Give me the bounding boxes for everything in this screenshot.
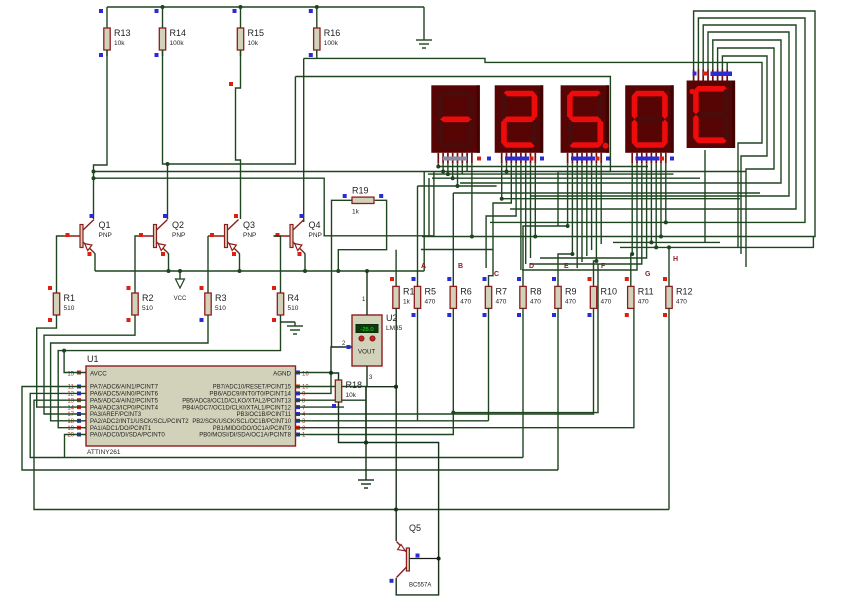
wire net wrap W1 (R16 to display5 pin8) [304, 58, 762, 248]
transistor Q4 [274, 214, 322, 256]
svg-text:BC557A: BC557A [409, 583, 431, 589]
pin 19 left [66, 426, 86, 432]
wire R15 to Q3 collector [229, 50, 241, 219]
wire R19 left to U2 pin2 column [332, 200, 353, 347]
wire R16 bottom junction [316, 50, 318, 58]
marker bar display DS5 [693, 72, 733, 77]
wire display5 pin3 bundle [510, 25, 796, 209]
wire DS1 pin b [441, 164, 445, 174]
wire long bus Q loop [92, 172, 434, 236]
resistor R15 [233, 7, 265, 56]
wire ground node to Q5 base net [366, 443, 439, 559]
wire R18 bottom to ground node [339, 402, 367, 443]
microcontroller U1 ATTINY261 [86, 354, 296, 456]
wire DS3 pin e [586, 164, 588, 256]
wire DS1 pin f [461, 164, 463, 174]
wire DS4 pin b [522, 164, 637, 270]
wire R9 top [558, 254, 572, 286]
wire DS1 pin d [451, 164, 455, 180]
svg-text:R14: R14 [170, 28, 187, 38]
resistor R6 [447, 277, 472, 317]
svg-text:Q3: Q3 [243, 220, 255, 230]
resistor R3 [200, 286, 227, 322]
wire R1 to pin14 [37, 315, 66, 407]
svg-text:1: 1 [362, 297, 366, 303]
svg-text:G: G [645, 271, 651, 278]
wire DS1 pin a [436, 164, 440, 169]
wire net wrap W2 (R14 net around displays) [295, 77, 610, 227]
resistor R11 [625, 277, 654, 317]
svg-text:Q4: Q4 [309, 220, 321, 230]
svg-text:3: 3 [302, 419, 306, 425]
svg-text:510: 510 [142, 305, 153, 312]
node B [458, 263, 463, 270]
svg-text:R11: R11 [638, 286, 654, 296]
svg-text:R19: R19 [352, 185, 369, 195]
wire R4 bottom to ground [281, 315, 296, 322]
svg-text:510: 510 [288, 305, 299, 312]
wire DS4 pin f [654, 164, 658, 249]
resistor R18 [332, 380, 362, 408]
wire AVCC tap [64, 351, 86, 373]
wire pin2 to R11 [309, 308, 634, 428]
wire R14 to Q2 collector [163, 50, 170, 219]
svg-text:VOUT: VOUT [358, 349, 375, 356]
wire DS1 pin c [446, 164, 450, 176]
svg-text:470: 470 [601, 298, 612, 305]
svg-text:VCC: VCC [174, 296, 187, 302]
wire R5 to pin3 [309, 308, 418, 421]
svg-text:1k: 1k [352, 208, 360, 215]
wire pin11 to bus B [22, 387, 558, 471]
svg-text:PNP: PNP [309, 232, 322, 239]
wire R7 down to pin3 row [488, 308, 490, 421]
svg-text:470: 470 [638, 298, 649, 305]
wire mesh left col a [423, 172, 425, 272]
svg-text:510: 510 [64, 305, 75, 312]
node D [529, 263, 534, 270]
wire Q3 emitter to rail [239, 253, 240, 272]
ground near R4 [287, 322, 303, 334]
wire R3 to pin18 [51, 315, 208, 421]
wire R19 right jog to rail [338, 200, 386, 271]
pin 12 left [66, 391, 86, 397]
wire bus segment F [421, 249, 493, 251]
svg-text:510: 510 [215, 305, 226, 312]
wire display5 pin6 bundle [718, 48, 774, 267]
resistor R8 [517, 277, 542, 317]
wire bus segment B [432, 177, 700, 179]
wire DS3 pin a [566, 164, 570, 228]
resistor R10 [588, 277, 618, 317]
node A [421, 263, 426, 270]
resistor R14 [155, 7, 187, 57]
7-segment display DS4 showing 0 [625, 85, 674, 164]
svg-text:4: 4 [302, 412, 306, 418]
wire DS2 pin g [530, 164, 532, 258]
wire DS2 pin d [486, 164, 516, 268]
wire R11 top [631, 254, 632, 286]
wire pin8 short [309, 399, 366, 401]
svg-text:R16: R16 [324, 28, 341, 38]
resistor R1 [48, 286, 75, 322]
transistor Q3 [208, 214, 256, 256]
wire DS3 pin g [594, 164, 598, 263]
pin 13 left [66, 398, 86, 404]
wire VCC top rail [107, 5, 424, 9]
wire display5 pin7 bundle [722, 56, 767, 254]
wire DS2 pin c [493, 164, 511, 250]
pin 9 right [296, 391, 310, 397]
svg-text:8: 8 [302, 398, 306, 404]
7-segment display DS3 showing 5 with decimal point [561, 85, 610, 164]
wire R2 to pin17 [44, 315, 135, 414]
wire net H horizontal [620, 237, 813, 248]
svg-text:E: E [564, 263, 569, 270]
wire DS4 pin a [630, 164, 634, 256]
wire pin10 to ground node [309, 387, 368, 445]
pin 11 left [66, 385, 86, 391]
wire DS2 pin f [525, 164, 527, 264]
wire emitter rail [95, 269, 424, 273]
wire pin20 to bus A join [65, 435, 67, 458]
wire Q1 emitter to rail [94, 253, 95, 272]
wire display5 pin5 bundle [460, 40, 781, 183]
wire mesh left col b [428, 178, 430, 237]
svg-text:PNP: PNP [99, 232, 112, 239]
wire DS3 pin d [581, 164, 583, 262]
svg-text:C: C [494, 271, 499, 278]
wire DS3 pin f [591, 164, 593, 250]
svg-text:F: F [601, 263, 606, 270]
resistor R4 [272, 286, 299, 322]
wire DS4 pin c [530, 164, 642, 264]
transistor Q2 [137, 214, 185, 256]
svg-text:470: 470 [496, 298, 507, 305]
wire DS2 pin a [500, 164, 504, 201]
wire AGND to R18 node [309, 372, 331, 374]
wire DS3 pin b [570, 164, 574, 256]
pin 18 left [66, 419, 86, 425]
svg-text:1k: 1k [403, 298, 411, 305]
svg-text:A: A [421, 263, 426, 270]
marker bar display DS4 [636, 157, 675, 161]
svg-text:470: 470 [425, 298, 436, 305]
wire DS4 pin d [540, 164, 647, 258]
wire DS2 pin e [520, 164, 522, 270]
svg-text:R6: R6 [460, 286, 472, 296]
svg-text:14: 14 [67, 405, 74, 411]
wire Q4 emitter to rail [304, 253, 305, 272]
svg-text:-25.0: -25.0 [360, 327, 373, 333]
svg-text:10: 10 [302, 385, 309, 391]
wire pin7 short [309, 406, 344, 408]
svg-text:R8: R8 [530, 286, 542, 296]
marker bar display DS3 [571, 157, 610, 161]
wire R17 column down to Q5 emitter [394, 308, 398, 541]
wire R6 branch to mesh [451, 264, 598, 415]
wire R16 to Q4 collector [303, 58, 305, 222]
wire DS2 pin h [533, 164, 537, 239]
wire pin4 row to R10 [309, 308, 594, 414]
wire display5 pin2 bundle [490, 18, 805, 222]
wire display5 pin1 bundle [422, 11, 815, 237]
svg-text:10k: 10k [248, 40, 259, 47]
svg-text:3: 3 [369, 375, 373, 381]
wire pin3 row extension [418, 420, 489, 422]
wire DS3 pin h [600, 164, 602, 244]
svg-text:12: 12 [67, 392, 74, 398]
wire bus segment C+dot [418, 185, 497, 187]
svg-text:U1: U1 [87, 354, 99, 364]
node H [673, 256, 678, 263]
svg-text:R3: R3 [215, 293, 227, 303]
svg-text:1: 1 [302, 433, 306, 439]
svg-text:Q1: Q1 [99, 220, 111, 230]
svg-text:AGND: AGND [273, 371, 291, 378]
svg-text:R18: R18 [346, 380, 363, 390]
wire pin12 to bus A [30, 393, 523, 457]
wire R12 top [667, 245, 671, 286]
wire R12 down to bus D [668, 308, 670, 510]
svg-text:LM35: LM35 [386, 325, 403, 332]
wire bus segment D [453, 192, 760, 194]
pin 14 left [66, 405, 86, 411]
pin 16 AGND [296, 371, 310, 378]
resistor R5 [412, 277, 437, 317]
svg-text:ATTINY261: ATTINY261 [87, 449, 121, 456]
wire U2 pin3 to R17 column [367, 366, 398, 389]
wire pin13 to bus D [34, 400, 669, 509]
pin 10 right [296, 385, 310, 391]
wire R9 down to bus B [557, 308, 559, 470]
svg-text:R9: R9 [565, 286, 577, 296]
wire display5 pin4 bundle [530, 32, 789, 196]
svg-text:18: 18 [67, 419, 74, 425]
svg-text:R10: R10 [601, 286, 618, 296]
svg-text:Q2: Q2 [172, 220, 184, 230]
wire display5 dp column [704, 150, 706, 242]
wire R14 net extension right [168, 77, 296, 165]
node E [564, 263, 569, 270]
resistor R7 [483, 277, 508, 317]
pin 15 AVCC [67, 371, 81, 378]
wire R8 down to bus A [522, 308, 524, 458]
ground top-right [416, 7, 432, 48]
resistor R19 [343, 185, 384, 215]
wire DS4 pin h [664, 164, 668, 224]
wire R7 top [489, 250, 494, 287]
resistor R2 [127, 286, 154, 322]
wire R3 base link [207, 236, 209, 293]
svg-text:17: 17 [67, 412, 74, 418]
wire U2 pin2 left [331, 345, 352, 373]
wire R6 top [452, 193, 454, 286]
svg-text:PA0/ADC0/DI/SDA/PCINT0: PA0/ADC0/DI/SDA/PCINT0 [90, 432, 165, 439]
svg-text:PB0/MOSI/DI/SDA/OC1A/PCINT8: PB0/MOSI/DI/SDA/OC1A/PCINT8 [199, 432, 291, 439]
svg-text:20: 20 [67, 433, 74, 439]
wire bus segment B2 [438, 166, 648, 168]
svg-text:470: 470 [460, 298, 471, 305]
pin 3 right [296, 419, 310, 425]
wire R2 base link [135, 236, 137, 293]
svg-text:H: H [673, 256, 678, 263]
svg-text:19: 19 [67, 426, 74, 432]
wire R6 to pin1 [309, 308, 453, 435]
svg-text:B: B [458, 263, 463, 270]
svg-text:R1: R1 [64, 293, 76, 303]
svg-text:D: D [529, 263, 534, 270]
svg-text:Q5: Q5 [409, 523, 421, 533]
pin 4 right [296, 412, 310, 418]
svg-text:2: 2 [342, 341, 346, 347]
resistor R16 [309, 7, 341, 57]
resistor R9 [552, 277, 577, 317]
wire R18 top node [329, 371, 339, 380]
wire mesh row242 [613, 241, 720, 243]
node G [645, 271, 651, 278]
wire pin9 to R18 node [309, 373, 331, 393]
ground center bottom [358, 480, 374, 488]
wire DS4 pin g [659, 164, 663, 239]
pin 7 right [296, 405, 310, 411]
resistor R12 [663, 277, 693, 317]
pin 17 left [66, 412, 86, 418]
svg-text:9: 9 [302, 392, 306, 398]
wire DS1 pin e [456, 164, 460, 188]
svg-text:100k: 100k [324, 40, 339, 47]
svg-text:10k: 10k [346, 392, 357, 399]
7-segment display DS5 showing degree C [687, 70, 736, 149]
svg-text:13: 13 [67, 398, 74, 404]
svg-text:AVCC: AVCC [90, 371, 107, 378]
node C [494, 271, 499, 278]
svg-text:R12: R12 [676, 286, 693, 296]
wire DS2 pin b [505, 164, 509, 174]
resistor R13 [99, 7, 131, 57]
wire R10 top [594, 261, 597, 286]
pin 8 right [296, 398, 310, 404]
transistor Q5 BC557A [390, 523, 441, 589]
svg-text:470: 470 [530, 298, 541, 305]
wire R13 to Q1 collector [94, 50, 108, 219]
marker bar display DS2 [505, 157, 544, 161]
wire bus segment E [502, 198, 740, 200]
wire U2 pin1 to rail [366, 271, 368, 315]
sensor U2 LM35 [342, 297, 403, 381]
pin 1 right [296, 433, 310, 439]
wire DS4 pin e [649, 164, 653, 244]
pin 20 left [66, 433, 86, 439]
svg-text:470: 470 [565, 298, 576, 305]
svg-text:R13: R13 [114, 28, 131, 38]
svg-text:R7: R7 [496, 286, 508, 296]
svg-text:R15: R15 [248, 28, 265, 38]
wire bus segment B3 [428, 173, 674, 175]
marker bar display DS1 [443, 157, 491, 161]
svg-text:R5: R5 [425, 286, 437, 296]
wire Q2 emitter to rail [168, 253, 169, 272]
wire R17 top to jog [395, 250, 397, 287]
svg-text:10k: 10k [114, 40, 125, 47]
wire display5 pin8 stub to W1 [726, 62, 728, 70]
wire DS1 pin g [466, 164, 468, 172]
svg-text:470: 470 [676, 298, 687, 305]
wire ground stem center [364, 387, 368, 481]
wire R1 base link [57, 236, 64, 293]
svg-text:PNP: PNP [243, 232, 256, 239]
svg-text:2: 2 [302, 426, 306, 432]
svg-text:7: 7 [302, 405, 306, 411]
wire R8 top [523, 226, 568, 286]
7-segment display DS2 showing 2 [495, 85, 544, 164]
wire R5 top [417, 186, 419, 286]
node F [601, 263, 606, 270]
wire R4 base link [274, 236, 281, 293]
7-segment display DS1 showing minus [431, 85, 480, 164]
wire Q5 collector loop [396, 559, 438, 595]
svg-text:100k: 100k [170, 40, 185, 47]
wire long bus P [92, 170, 747, 174]
wire DS1 pin h [470, 164, 474, 239]
power flag VCC [174, 271, 187, 302]
wire DS3 pin c [576, 164, 578, 268]
wire R4 to pin19 [58, 322, 280, 428]
svg-text:R2: R2 [142, 293, 154, 303]
pin 2 right [296, 426, 310, 432]
svg-text:R4: R4 [288, 293, 300, 303]
resistor R17 [390, 277, 420, 308]
junction AVCC tap dot [62, 349, 66, 353]
svg-text:PNP: PNP [172, 232, 185, 239]
svg-text:11: 11 [68, 385, 75, 391]
transistor Q1 [64, 214, 112, 256]
